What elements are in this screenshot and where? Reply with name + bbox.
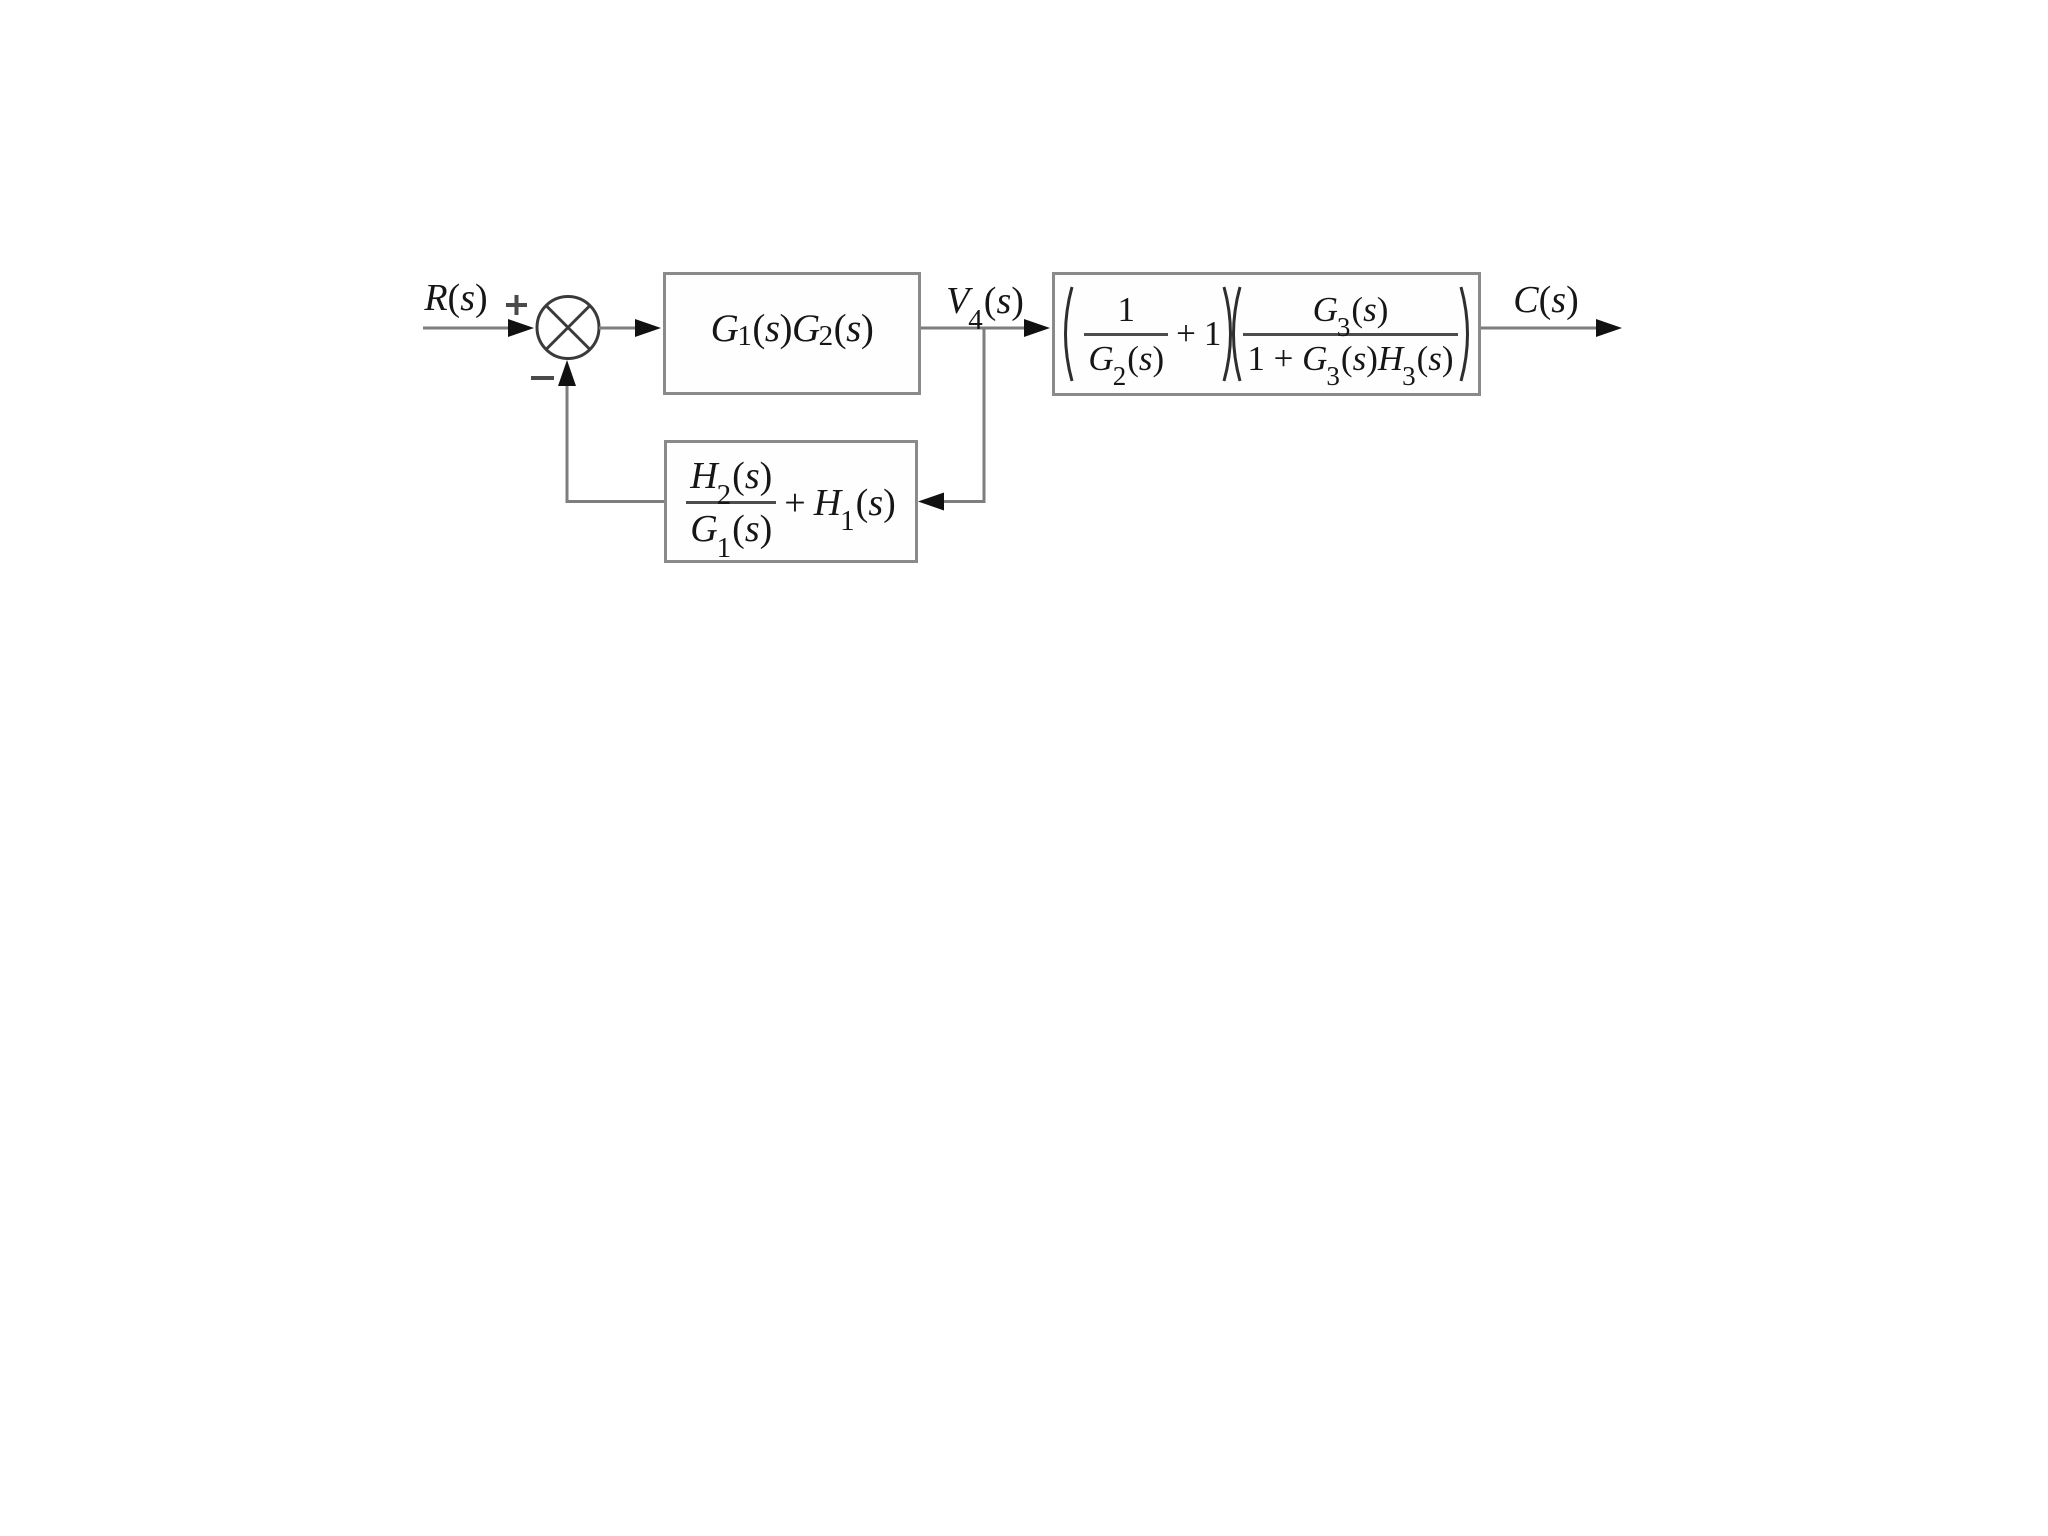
arrowhead output C(s) [1596,319,1622,337]
label R(s) [424,276,487,320]
feedback block H2/G1 + H1 [664,440,918,563]
wire branch down from node V4 [983,328,986,503]
plus sign [506,295,527,315]
summing junction circle [537,297,599,359]
wire branch to feedback block [944,500,984,503]
wire input R(s) to summing junction [423,327,512,330]
arrowhead into block G1G2 [635,319,661,337]
block G1(s)G2(s) [663,272,921,395]
wire feedback block to below summing junction [567,384,664,502]
minus sign [531,376,554,380]
wire summing junction to block G1G2 [599,327,640,330]
arrowhead up into summing junction [558,360,576,386]
label V4(s) [946,279,1024,323]
arrowhead into feedback block [918,493,944,511]
wire block G1G2 to block 2 with node V4 [920,327,1028,330]
label C(s) [1513,278,1578,322]
block (1/G2+1)(G3/(1+G3H3)) [1052,272,1481,396]
wire output to C(s) [1480,327,1600,330]
summing junction X [546,306,590,350]
arrowhead into summing junction [508,319,534,337]
arrowhead into block 2 [1024,319,1050,337]
